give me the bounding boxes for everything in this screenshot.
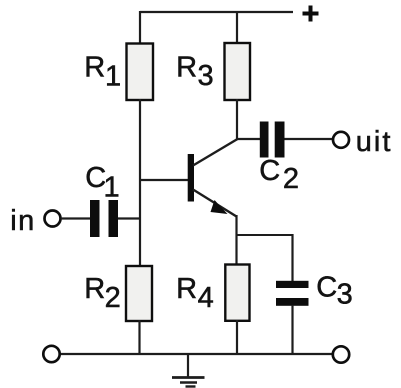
wire R4 bottom lead bbox=[236, 320, 238, 355]
wire C2 to uit terminal bbox=[285, 138, 334, 140]
label C1 bbox=[85, 162, 119, 203]
capacitor C1 bbox=[90, 200, 118, 237]
wire R1 top lead bbox=[139, 11, 141, 44]
svg-text:4: 4 bbox=[198, 282, 214, 314]
wire collector vertical (R3 to collector node) bbox=[236, 99, 238, 140]
wire in terminal to C1 bbox=[61, 217, 90, 219]
wire emitter branch to C3 bbox=[236, 234, 293, 236]
wire R1 to R2 vertical (base divider) bbox=[139, 99, 141, 267]
label C3 bbox=[316, 272, 353, 311]
wire base bbox=[139, 179, 188, 181]
wire C3 top lead bbox=[291, 234, 293, 282]
wire C1 to divider node bbox=[118, 217, 141, 219]
capacitor C2 bbox=[260, 122, 285, 158]
label C2 bbox=[259, 155, 299, 195]
label R1 bbox=[84, 51, 121, 92]
svg-text:in: in bbox=[10, 205, 36, 237]
wire R3 top lead bbox=[236, 11, 238, 44]
svg-text:uit: uit bbox=[356, 126, 393, 158]
svg-text:3: 3 bbox=[198, 60, 214, 92]
svg-text:1: 1 bbox=[105, 61, 121, 93]
terminal bottom-left bbox=[43, 346, 59, 362]
resistor R4 bbox=[225, 265, 249, 321]
resistor R3 bbox=[225, 43, 251, 100]
svg-text:2: 2 bbox=[283, 163, 299, 195]
wire R2 bottom lead bbox=[138, 320, 140, 355]
svg-text:3: 3 bbox=[337, 279, 353, 311]
svg-text:C: C bbox=[259, 155, 280, 187]
svg-text:1: 1 bbox=[104, 171, 120, 203]
transistor Q1 collector lead bbox=[193, 139, 238, 166]
svg-text:R: R bbox=[84, 51, 105, 83]
terminal uit bbox=[333, 132, 349, 148]
label R4 bbox=[176, 273, 214, 314]
capacitor C3 bbox=[276, 281, 309, 306]
svg-text:C: C bbox=[316, 272, 337, 304]
svg-text:R: R bbox=[176, 273, 197, 305]
terminal in bbox=[45, 211, 61, 227]
wire emitter vertical to R4 bbox=[235, 215, 237, 265]
+ supply symbol bbox=[303, 6, 319, 22]
ground bbox=[172, 354, 205, 387]
resistor R1 bbox=[127, 44, 154, 101]
transistor Q1 emitter arrow bbox=[211, 200, 228, 214]
svg-text:R: R bbox=[176, 51, 197, 83]
wire C3 bottom lead bbox=[291, 305, 293, 355]
wire top rail bbox=[140, 11, 293, 13]
resistor R2 bbox=[126, 266, 152, 321]
label R3 bbox=[176, 51, 214, 91]
terminal bottom-right bbox=[333, 346, 349, 362]
svg-text:R: R bbox=[84, 273, 105, 305]
transistor Q1 base bar bbox=[188, 154, 194, 202]
wire bottom rail bbox=[60, 353, 333, 355]
label R2 bbox=[84, 273, 121, 314]
svg-text:2: 2 bbox=[105, 282, 121, 314]
transistor Q1 emitter lead bbox=[193, 190, 237, 217]
wire collector node to C2 bbox=[236, 138, 260, 140]
